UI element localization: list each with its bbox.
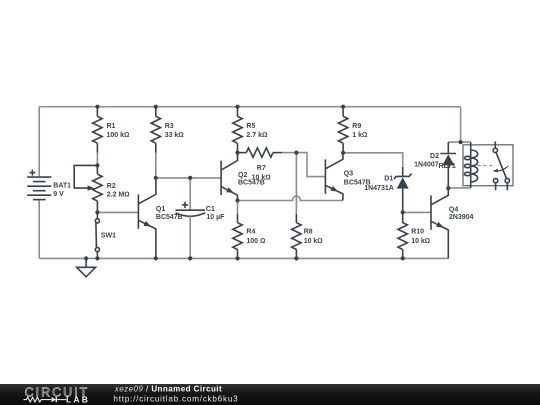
svg-text:100 Ω: 100 Ω bbox=[246, 238, 265, 245]
label R1 value bbox=[107, 123, 130, 139]
wire D1 node to Q4 base bbox=[403, 211, 431, 213]
wire D2-coil top link bbox=[448, 141, 470, 143]
svg-text:2N3904: 2N3904 bbox=[449, 214, 474, 221]
svg-text:1N4731A: 1N4731A bbox=[364, 185, 394, 192]
label C1 value bbox=[206, 206, 225, 221]
label R5 value bbox=[246, 123, 267, 139]
svg-text:10 kΩ: 10 kΩ bbox=[304, 238, 323, 245]
potentiometer R2 bbox=[74, 165, 102, 212]
svg-text:Q1: Q1 bbox=[156, 206, 165, 213]
wire node row to Q2 base bbox=[156, 177, 221, 179]
svg-text:10 kΩ: 10 kΩ bbox=[411, 238, 430, 245]
wire R3 bottom bbox=[155, 153, 157, 178]
label R3 value bbox=[165, 123, 184, 139]
resistor R9 bbox=[338, 107, 347, 153]
transistor Q2 bbox=[221, 153, 237, 201]
svg-text:http://circuitlab.com/ckb6ku3: http://circuitlab.com/ckb6ku3 bbox=[113, 394, 238, 403]
svg-text:9 V: 9 V bbox=[53, 191, 64, 198]
wire R9 node to D1 bbox=[343, 153, 403, 167]
label Q1 value bbox=[156, 206, 183, 221]
svg-text:C1: C1 bbox=[206, 206, 215, 213]
svg-text:BAT1: BAT1 bbox=[53, 183, 71, 190]
svg-text:Q4: Q4 bbox=[449, 206, 458, 213]
wire R2 to Q1 base bbox=[97, 211, 138, 213]
footer bar bbox=[0, 384, 540, 405]
svg-text:10 µF: 10 µF bbox=[206, 214, 225, 221]
battery BAT1 bbox=[27, 170, 51, 200]
svg-text:LAB: LAB bbox=[66, 395, 90, 405]
wire Q3 base path bbox=[296, 153, 325, 177]
resistor R4 bbox=[233, 201, 242, 259]
label Q2 value bbox=[238, 172, 265, 187]
label RLY1 bbox=[439, 163, 456, 170]
label D1 value bbox=[364, 176, 394, 193]
label R8 value bbox=[304, 229, 323, 245]
svg-text:R10: R10 bbox=[411, 229, 424, 236]
svg-text:D1: D1 bbox=[384, 176, 393, 183]
wire top rail bbox=[39, 106, 460, 108]
wire R7 to R8 node bbox=[282, 152, 296, 154]
resistor R8 bbox=[292, 214, 301, 259]
node dots bbox=[84, 105, 463, 261]
wire R1 to R2 node bbox=[96, 153, 98, 166]
wire battery negative drop bbox=[38, 200, 40, 259]
label R7 value bbox=[252, 165, 271, 181]
svg-text:R1: R1 bbox=[107, 123, 116, 130]
svg-text:1 kΩ: 1 kΩ bbox=[352, 132, 367, 139]
svg-text:R5: R5 bbox=[246, 123, 255, 130]
svg-text:BC547B: BC547B bbox=[238, 180, 265, 187]
switch SW1 bbox=[95, 212, 99, 258]
svg-text:D2: D2 bbox=[430, 153, 439, 160]
wire bottom rail bbox=[39, 257, 448, 259]
resistor R5 bbox=[233, 107, 242, 153]
transistor Q4 bbox=[431, 188, 448, 258]
svg-text:Q2: Q2 bbox=[238, 172, 247, 179]
label R4 value bbox=[246, 229, 265, 245]
svg-text:2.2 MΩ: 2.2 MΩ bbox=[107, 192, 130, 199]
label R9 value bbox=[352, 123, 367, 139]
svg-text:R2: R2 bbox=[107, 183, 116, 190]
label R2 value bbox=[107, 183, 130, 199]
capacitor C1 bbox=[176, 178, 206, 259]
resistor R3 bbox=[151, 107, 160, 153]
relay RLY1 bbox=[463, 142, 513, 191]
footer title text bbox=[113, 384, 238, 403]
label Q4 value bbox=[449, 206, 474, 220]
label Q3 value bbox=[344, 170, 371, 186]
svg-text:1N4007: 1N4007 bbox=[414, 161, 439, 168]
svg-text:2.7 kΩ: 2.7 kΩ bbox=[246, 132, 267, 139]
svg-text:R8: R8 bbox=[304, 229, 313, 236]
wire D2-coil bottom link bbox=[448, 187, 470, 189]
svg-text:xeze09 / Unnamed Circuit: xeze09 / Unnamed Circuit bbox=[114, 384, 222, 393]
label R10 value bbox=[411, 229, 430, 245]
svg-text:R3: R3 bbox=[165, 123, 174, 130]
svg-text:R9: R9 bbox=[352, 123, 361, 130]
transistor Q3 bbox=[325, 153, 343, 201]
zener diode D1 bbox=[394, 167, 412, 212]
svg-text:SW1: SW1 bbox=[101, 232, 116, 239]
resistor R10 bbox=[398, 212, 407, 258]
svg-text:33 kΩ: 33 kΩ bbox=[165, 132, 184, 139]
svg-text:R7: R7 bbox=[257, 165, 266, 172]
resistor R7 bbox=[238, 148, 283, 157]
wire battery positive riser bbox=[38, 107, 40, 177]
wire top rail right drop to relay bbox=[460, 107, 462, 142]
label BAT1 value bbox=[53, 183, 71, 199]
diode D2 bbox=[440, 142, 456, 188]
logo CIRCUIT LAB bbox=[24, 386, 91, 405]
svg-text:100 kΩ: 100 kΩ bbox=[107, 132, 130, 139]
wire R8 column bbox=[295, 153, 297, 214]
resistor R1 bbox=[93, 107, 102, 153]
wire emitter net Q2 to Q3 with hop bbox=[238, 196, 343, 200]
svg-text:Q3: Q3 bbox=[344, 170, 353, 177]
svg-text:RLY1: RLY1 bbox=[439, 163, 456, 170]
transistor Q1 bbox=[138, 178, 156, 259]
label D2 value bbox=[414, 153, 439, 169]
label SW1 bbox=[101, 232, 116, 239]
ground bbox=[77, 258, 96, 276]
svg-text:R4: R4 bbox=[246, 229, 255, 236]
